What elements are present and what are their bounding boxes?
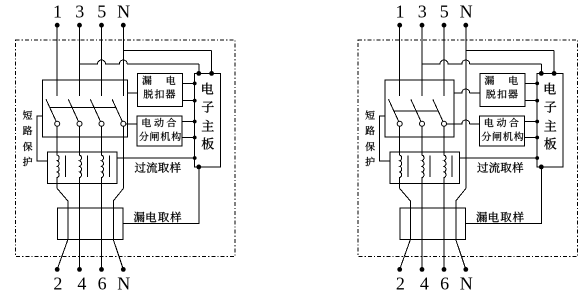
svg-text:1: 1 xyxy=(396,2,405,22)
svg-text:N: N xyxy=(460,2,473,22)
svg-text:4: 4 xyxy=(420,274,429,294)
svg-text:3: 3 xyxy=(75,2,84,22)
svg-text:N: N xyxy=(117,2,130,22)
svg-text:5: 5 xyxy=(97,2,106,22)
svg-text:N: N xyxy=(117,274,130,294)
svg-text:5: 5 xyxy=(440,2,449,22)
svg-text:2: 2 xyxy=(53,274,62,294)
svg-text:3: 3 xyxy=(418,2,427,22)
svg-text:2: 2 xyxy=(396,274,405,294)
svg-text:6: 6 xyxy=(440,274,449,294)
svg-text:1: 1 xyxy=(53,2,62,22)
svg-text:4: 4 xyxy=(77,274,86,294)
svg-text:N: N xyxy=(460,274,473,294)
svg-text:6: 6 xyxy=(98,274,107,294)
